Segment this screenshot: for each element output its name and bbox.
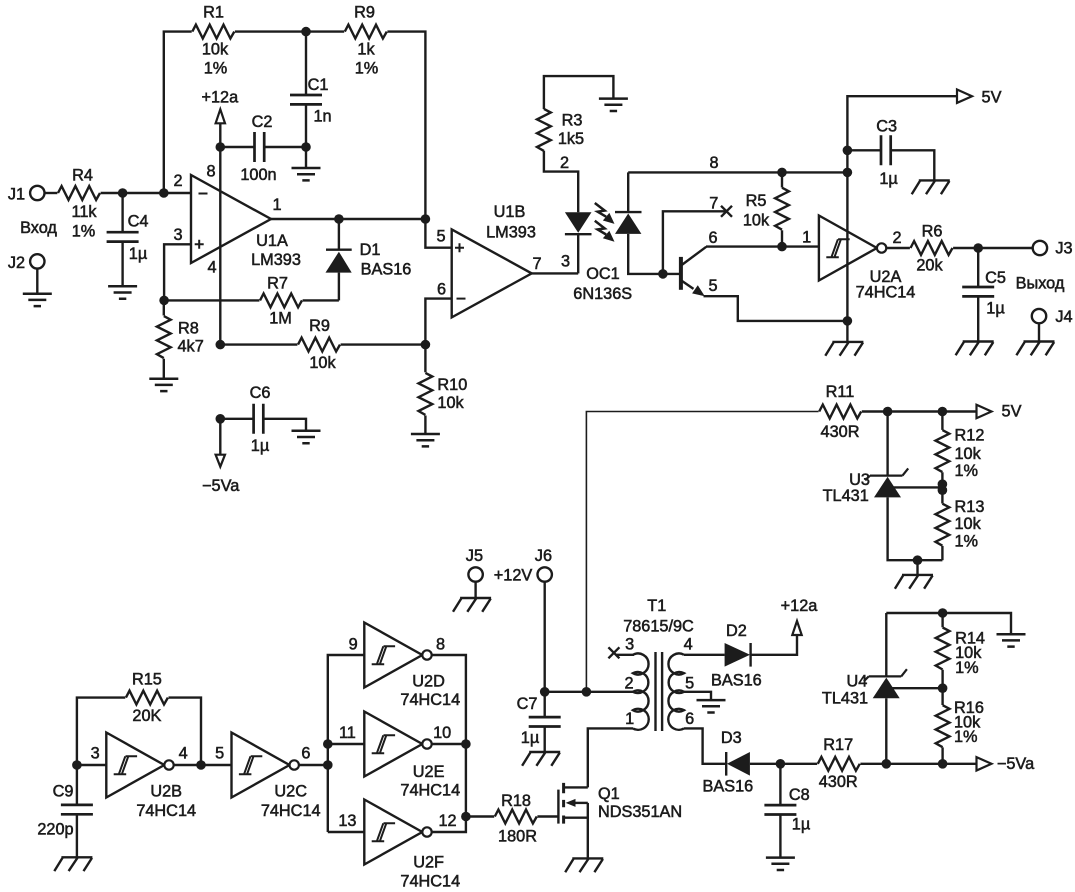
svg-text:C4: C4 — [128, 212, 149, 230]
junction — [421, 214, 431, 224]
svg-text:LM393: LM393 — [486, 223, 536, 241]
wire — [862, 410, 977, 412]
svg-text:+12V: +12V — [494, 566, 533, 584]
svg-text:U2D: U2D — [412, 673, 445, 691]
svg-text:−5Va: −5Va — [202, 477, 240, 495]
svg-text:5: 5 — [436, 227, 445, 245]
svg-text:Вход: Вход — [20, 219, 57, 237]
svg-text:R4: R4 — [72, 166, 93, 184]
svg-text:1k: 1k — [357, 40, 375, 58]
svg-text:8: 8 — [709, 154, 718, 172]
svg-text:R3: R3 — [562, 111, 583, 129]
svg-text:74HC14: 74HC14 — [261, 802, 321, 820]
svg-text:2: 2 — [173, 172, 182, 190]
wire — [684, 692, 711, 700]
ground — [565, 858, 603, 872]
wire — [684, 654, 725, 656]
ground — [411, 434, 440, 446]
ground — [697, 700, 726, 712]
resistor R10 — [419, 345, 468, 434]
svg-text:1k5: 1k5 — [558, 130, 584, 148]
svg-text:10k: 10k — [437, 394, 464, 412]
junction — [938, 759, 948, 769]
svg-text:J6: J6 — [535, 547, 552, 565]
svg-text:R15: R15 — [132, 671, 162, 689]
resistor R13 — [936, 487, 985, 560]
svg-text:1: 1 — [802, 228, 811, 246]
svg-text:D1: D1 — [360, 241, 381, 259]
resistor R8 — [157, 300, 204, 378]
svg-text:D2: D2 — [726, 622, 747, 640]
junction — [301, 142, 311, 152]
svg-text:J4: J4 — [1055, 308, 1072, 326]
inverter U2D — [364, 623, 460, 709]
svg-text:R10: R10 — [437, 376, 467, 394]
label Vhod — [20, 219, 57, 237]
wire — [271, 218, 425, 220]
svg-text:74HC14: 74HC14 — [856, 283, 916, 301]
svg-text:C2: C2 — [252, 113, 273, 131]
capacitor C7 — [517, 692, 561, 752]
svg-text:1: 1 — [625, 710, 634, 728]
inverter U2F — [364, 800, 460, 891]
wire — [387, 32, 425, 219]
junction — [882, 759, 892, 769]
svg-text:Выход: Выход — [1016, 274, 1065, 292]
svg-text:1%: 1% — [355, 59, 379, 77]
junction — [72, 760, 82, 770]
svg-text:1µ: 1µ — [792, 816, 810, 834]
capacitor C1 — [290, 32, 332, 147]
svg-text:74HC14: 74HC14 — [400, 872, 460, 890]
svg-text:10: 10 — [433, 724, 451, 742]
shunt regulator U4 — [822, 613, 943, 764]
wire — [432, 743, 466, 745]
svg-text:1µ: 1µ — [251, 437, 269, 455]
junction — [461, 739, 471, 749]
junction — [883, 407, 893, 417]
resistor R14 — [936, 613, 985, 688]
svg-text:10k: 10k — [309, 354, 336, 372]
ground — [825, 321, 863, 356]
wire 5V rail — [847, 96, 957, 321]
svg-text:C1: C1 — [308, 76, 329, 94]
svg-text:100n: 100n — [240, 166, 276, 184]
optocoupler OC1 LED — [561, 212, 632, 303]
light arrows — [595, 203, 615, 242]
junction — [323, 760, 333, 770]
svg-text:4: 4 — [207, 258, 216, 276]
svg-text:C5: C5 — [985, 269, 1006, 287]
diode D3 — [703, 729, 754, 795]
ground — [292, 147, 321, 180]
svg-text:6: 6 — [685, 710, 694, 728]
junction — [323, 739, 333, 749]
svg-text:11k: 11k — [71, 203, 97, 221]
svg-text:5: 5 — [215, 744, 224, 762]
svg-text:220p: 220p — [37, 821, 73, 839]
svg-text:+12a: +12a — [201, 88, 239, 106]
wire — [684, 728, 726, 763]
svg-text:13: 13 — [338, 812, 356, 830]
resistor R18 — [466, 792, 559, 846]
svg-text:1%: 1% — [72, 222, 96, 240]
svg-text:1µ: 1µ — [129, 245, 147, 263]
svg-text:74HC14: 74HC14 — [400, 782, 460, 800]
svg-text:5: 5 — [708, 277, 717, 295]
svg-text:5V: 5V — [982, 88, 1002, 106]
ground — [599, 99, 628, 111]
svg-text:R7: R7 — [267, 274, 288, 292]
svg-text:6: 6 — [437, 280, 446, 298]
svg-text:C9: C9 — [53, 782, 74, 800]
resistor R15 — [77, 671, 201, 765]
wire — [704, 296, 848, 321]
inverter U2E — [364, 712, 460, 800]
svg-text:3: 3 — [173, 226, 182, 244]
svg-text:D3: D3 — [721, 729, 742, 747]
junction — [216, 340, 226, 350]
svg-text:8: 8 — [206, 162, 215, 180]
svg-text:BAS16: BAS16 — [361, 260, 412, 278]
wire — [77, 744, 106, 765]
wire — [544, 582, 546, 692]
svg-text:1: 1 — [272, 196, 281, 214]
junction — [301, 27, 311, 37]
junction — [334, 214, 344, 224]
svg-text:U1B: U1B — [494, 203, 526, 221]
svg-text:C3: C3 — [876, 117, 897, 135]
power +12a — [201, 88, 239, 147]
svg-text:R9: R9 — [354, 3, 375, 21]
junction — [938, 407, 948, 417]
ground — [453, 582, 491, 612]
svg-text:2: 2 — [624, 674, 633, 692]
svg-text:10k: 10k — [202, 40, 229, 58]
svg-text:OC1: OC1 — [586, 265, 619, 283]
resistor R9 — [220, 317, 425, 372]
wire — [164, 244, 191, 300]
junction — [776, 759, 786, 769]
capacitor C3 — [847, 117, 934, 188]
svg-text:6N136S: 6N136S — [573, 285, 632, 303]
svg-text:R11: R11 — [826, 383, 855, 401]
svg-text:4k7: 4k7 — [178, 337, 204, 355]
svg-text:R12: R12 — [955, 426, 985, 444]
wire — [174, 744, 232, 765]
svg-text:6: 6 — [708, 229, 717, 247]
svg-text:U1A: U1A — [256, 232, 288, 250]
optocoupler OC1 transistor — [663, 229, 718, 296]
svg-text:4: 4 — [684, 635, 693, 653]
diode D2 — [711, 622, 762, 690]
power -5Va — [202, 419, 240, 495]
transformer T1 core — [623, 597, 694, 731]
svg-text:1µ: 1µ — [521, 729, 539, 747]
svg-text:C8: C8 — [789, 786, 810, 804]
junction — [973, 243, 983, 253]
wire — [328, 724, 365, 744]
svg-text:180R: 180R — [498, 828, 537, 846]
junction — [843, 146, 853, 156]
transformer T1 primary — [624, 635, 648, 729]
connector J4 — [1032, 308, 1073, 326]
wire 5V riser — [586, 412, 818, 692]
junction — [938, 608, 948, 618]
ground — [23, 269, 52, 307]
junction — [216, 414, 226, 424]
svg-text:5V: 5V — [1002, 402, 1022, 420]
svg-text:+12a: +12a — [781, 597, 819, 615]
connector J2 — [8, 254, 45, 272]
svg-text:10k: 10k — [955, 445, 982, 463]
power +12a — [781, 597, 819, 635]
pin 7 no-connect — [663, 195, 732, 274]
svg-text:C6: C6 — [250, 384, 271, 402]
svg-text:R1: R1 — [203, 3, 224, 21]
junction — [118, 188, 128, 198]
svg-text:R18: R18 — [501, 792, 531, 810]
svg-text:4: 4 — [179, 744, 188, 762]
wire — [219, 147, 221, 345]
junction — [461, 812, 471, 822]
svg-text:U2E: U2E — [413, 763, 445, 781]
svg-text:3: 3 — [91, 744, 100, 762]
wire — [751, 634, 797, 655]
junction — [777, 242, 787, 252]
ground — [766, 858, 795, 870]
shunt regulator U3 — [823, 412, 943, 561]
junction — [938, 683, 948, 693]
junction — [159, 296, 169, 306]
ground — [1016, 323, 1054, 355]
capacitor C5 — [962, 248, 1006, 342]
svg-text:9: 9 — [349, 635, 358, 653]
inverter U2B — [106, 733, 196, 820]
ground — [292, 431, 321, 443]
svg-text:R17: R17 — [823, 736, 853, 754]
svg-text:1M: 1M — [269, 309, 292, 327]
power -5Va — [977, 755, 1036, 773]
resistor R1 — [192, 3, 234, 77]
junction — [421, 340, 431, 350]
power 5V — [957, 88, 1002, 106]
junction — [216, 142, 226, 152]
svg-text:1%: 1% — [954, 728, 978, 746]
junction — [777, 168, 787, 178]
wire — [860, 763, 976, 765]
ground — [912, 180, 950, 194]
pin 3 no-connect — [608, 647, 634, 658]
wire — [45, 192, 58, 194]
wire input bus — [328, 635, 365, 832]
wire — [545, 691, 633, 693]
wire — [164, 32, 192, 193]
svg-text:430R: 430R — [819, 773, 858, 791]
svg-text:BAS16: BAS16 — [711, 672, 762, 690]
resistor R12 — [936, 412, 985, 488]
ground — [149, 379, 178, 391]
svg-text:10k: 10k — [743, 211, 770, 229]
svg-text:BAS16: BAS16 — [703, 778, 754, 796]
svg-text:TL431: TL431 — [822, 690, 868, 708]
svg-text:R13: R13 — [955, 498, 985, 516]
svg-text:R5: R5 — [746, 192, 767, 210]
wire — [886, 613, 1011, 634]
svg-text:R8: R8 — [178, 319, 199, 337]
svg-text:8: 8 — [436, 635, 445, 653]
svg-text:J5: J5 — [466, 547, 483, 565]
ground — [108, 286, 137, 298]
svg-text:C7: C7 — [517, 695, 538, 713]
svg-text:12: 12 — [438, 812, 456, 830]
svg-text:78615/9C: 78615/9C — [623, 617, 694, 635]
ground — [522, 752, 560, 766]
inverter U2C — [232, 733, 321, 820]
svg-text:7: 7 — [532, 255, 541, 273]
resistor R3 — [537, 76, 613, 212]
svg-text:3: 3 — [625, 635, 634, 653]
connector J5 — [466, 547, 483, 582]
svg-text:R6: R6 — [922, 222, 943, 240]
svg-text:10k: 10k — [955, 515, 982, 533]
capacitor C2 — [220, 113, 306, 184]
svg-text:U2B: U2B — [150, 782, 182, 800]
svg-text:5: 5 — [685, 674, 694, 692]
wire output bus — [432, 655, 466, 832]
svg-text:U4: U4 — [846, 672, 867, 690]
svg-text:74HC14: 74HC14 — [136, 802, 196, 820]
svg-text:J3: J3 — [1055, 240, 1072, 258]
resistor R7 — [164, 274, 339, 327]
resistor R17 — [818, 736, 860, 791]
junction — [159, 188, 169, 198]
junction — [658, 269, 668, 279]
resistor R11 — [819, 383, 861, 441]
capacitor C8 — [764, 764, 810, 858]
inverter U2A — [819, 216, 915, 302]
capacitor C6 — [220, 384, 306, 455]
svg-text:J1: J1 — [8, 185, 25, 203]
wire — [101, 192, 191, 194]
svg-text:74HC14: 74HC14 — [400, 691, 460, 709]
junction — [843, 316, 853, 326]
junction — [196, 760, 206, 770]
diode D1 — [326, 219, 412, 300]
svg-text:Q1: Q1 — [598, 785, 620, 803]
ground — [895, 560, 933, 589]
wire — [425, 299, 451, 345]
capacitor C4 — [107, 193, 149, 286]
svg-text:430R: 430R — [821, 423, 860, 441]
ground — [54, 857, 92, 871]
connector J6 — [494, 547, 552, 585]
wire — [328, 812, 365, 832]
svg-text:3: 3 — [561, 252, 570, 270]
svg-text:U2C: U2C — [274, 782, 307, 800]
svg-text:2: 2 — [560, 154, 569, 172]
svg-text:20K: 20K — [132, 707, 161, 725]
resistor R5 — [743, 172, 789, 246]
power 5V — [977, 402, 1022, 420]
junction — [938, 479, 948, 495]
junction — [843, 168, 853, 178]
svg-text:1%: 1% — [204, 59, 228, 77]
junction — [582, 687, 592, 697]
svg-text:1µ: 1µ — [986, 299, 1004, 317]
svg-text:−5Va: −5Va — [997, 755, 1035, 773]
junction — [913, 555, 923, 565]
svg-text:11: 11 — [339, 724, 356, 742]
svg-text:T1: T1 — [647, 597, 666, 615]
svg-text:TL431: TL431 — [823, 487, 869, 505]
resistor R4 — [58, 166, 100, 240]
wire — [235, 30, 344, 32]
resistor R9 — [345, 3, 387, 77]
svg-text:7: 7 — [709, 195, 718, 213]
svg-text:R9: R9 — [309, 317, 330, 335]
svg-text:6: 6 — [301, 744, 310, 762]
optocoupler OC1 photodiode — [615, 172, 663, 274]
wire — [299, 764, 328, 766]
svg-text:NDS351AN: NDS351AN — [598, 803, 682, 821]
resistor R6 — [886, 222, 1032, 274]
svg-text:1%: 1% — [955, 462, 979, 480]
wire — [532, 272, 579, 274]
connector J3 — [1016, 240, 1073, 293]
transformer T1 secondary — [668, 635, 694, 729]
connector J1 — [8, 185, 45, 203]
svg-text:1%: 1% — [955, 659, 979, 677]
wire net 8 — [628, 154, 847, 173]
svg-text:U2F: U2F — [413, 853, 444, 871]
junction — [540, 687, 550, 697]
ground — [997, 634, 1026, 646]
wire — [425, 219, 451, 248]
svg-text:1n: 1n — [313, 107, 331, 125]
op-amp U1A — [173, 162, 300, 276]
ground — [956, 342, 994, 356]
transistor Q1 — [558, 783, 682, 859]
wire — [706, 228, 819, 246]
capacitor C9 — [37, 765, 93, 857]
svg-text:LM393: LM393 — [251, 251, 301, 269]
op-amp U1B — [436, 203, 541, 318]
svg-text:1µ: 1µ — [879, 170, 897, 188]
resistor R16 — [936, 688, 984, 764]
svg-text:2: 2 — [892, 229, 901, 247]
svg-text:1%: 1% — [955, 532, 979, 550]
wire — [750, 763, 817, 765]
svg-text:20k: 20k — [916, 256, 943, 274]
wire — [588, 728, 633, 787]
svg-text:J2: J2 — [8, 254, 25, 272]
